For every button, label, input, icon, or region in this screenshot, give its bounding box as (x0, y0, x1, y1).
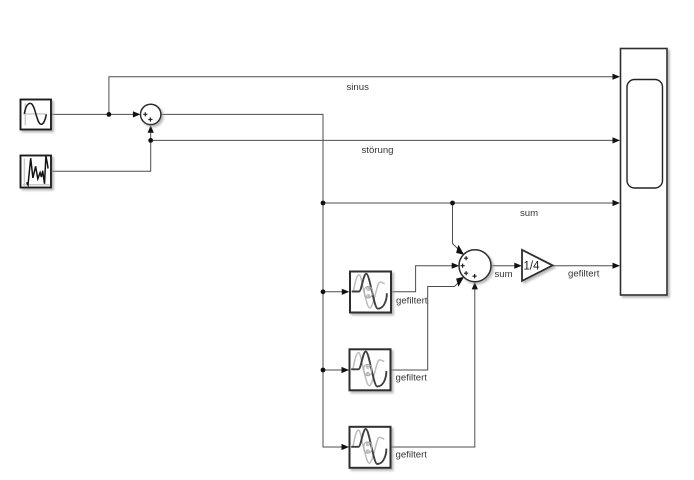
svg-text:störung: störung (362, 145, 394, 156)
svg-text:sinus: sinus (347, 82, 370, 93)
svg-text:gefiltert: gefiltert (396, 450, 428, 461)
svg-text:gefiltert: gefiltert (396, 373, 428, 384)
svg-text:sum: sum (520, 208, 538, 219)
svg-text:gefiltert: gefiltert (396, 295, 428, 306)
svg-text:gefiltert: gefiltert (568, 269, 600, 280)
svg-text:1/4: 1/4 (524, 261, 541, 273)
svg-text:sum: sum (495, 269, 513, 280)
